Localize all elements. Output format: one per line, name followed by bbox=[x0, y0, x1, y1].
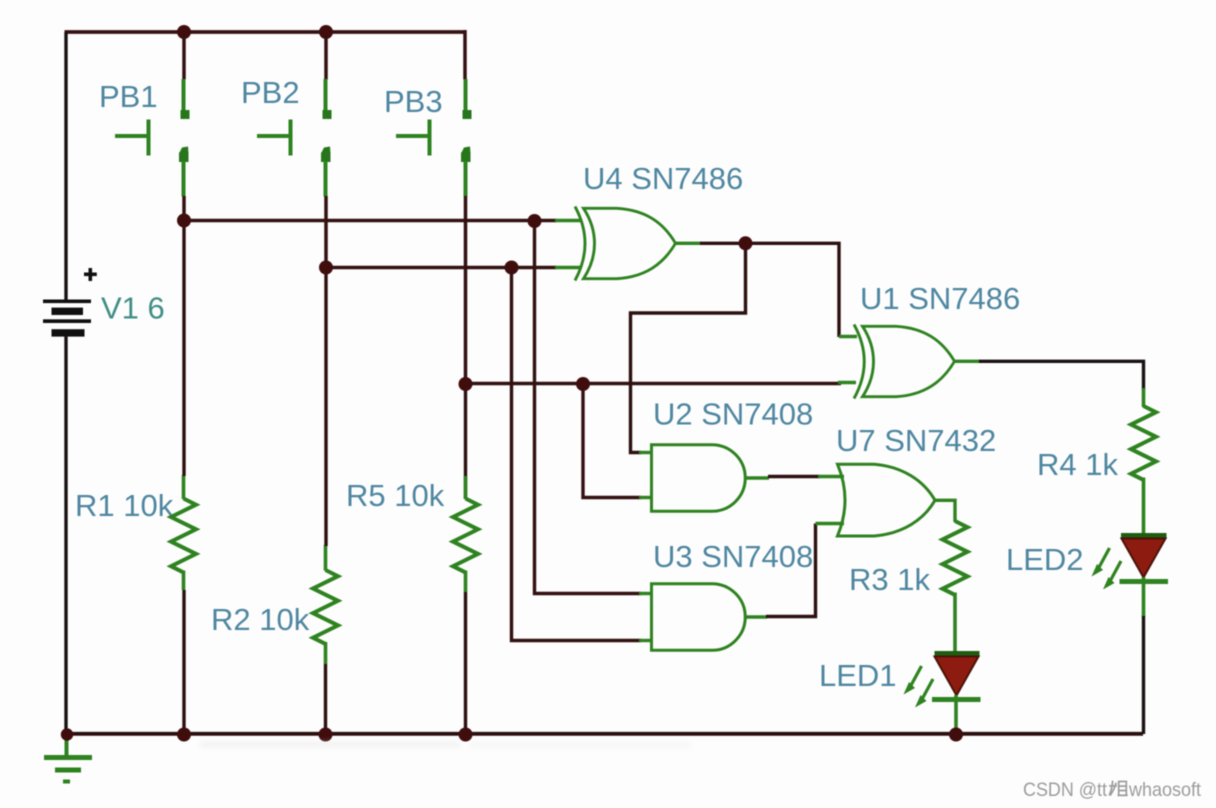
node dot B-U3 branch bbox=[505, 261, 519, 275]
node dot rail R2 bbox=[319, 728, 333, 742]
wire U1 output to R4 bbox=[955, 360, 980, 363]
wire bottom rail bbox=[65, 732, 1144, 736]
switch PB3 bbox=[396, 30, 472, 385]
node dot top rail PB2 bbox=[319, 25, 333, 39]
LED2 bbox=[1092, 536, 1169, 618]
svg-text:R2 10k: R2 10k bbox=[211, 602, 310, 637]
node dot C-U2 branch bbox=[576, 377, 590, 391]
resistor R5 bbox=[453, 384, 478, 592]
svg-text:R3 1k: R3 1k bbox=[849, 562, 930, 597]
op AND gate U3 bbox=[652, 584, 746, 651]
node dot rail LED1 bbox=[949, 728, 963, 742]
wire left rail (battery +) bbox=[64, 32, 67, 300]
wire U4 output branch to U2 input 1 bbox=[631, 243, 746, 452]
ghost smudge under rail bbox=[200, 741, 690, 748]
wire U3 output to U7 input 2 bbox=[746, 615, 768, 618]
wire PB2 column through R2 to rail bbox=[324, 268, 327, 547]
node dot A-R1 bbox=[177, 214, 191, 228]
op XOR gate U1 bbox=[854, 325, 955, 399]
svg-text:LED2: LED2 bbox=[1006, 542, 1084, 577]
resistor R1 bbox=[171, 475, 196, 590]
node dot rail R5 bbox=[459, 728, 473, 742]
svg-text:U2 SN7408: U2 SN7408 bbox=[653, 397, 813, 432]
wire node C (PB3 to U1 input 2) bbox=[466, 382, 842, 385]
svg-text:R1 10k: R1 10k bbox=[75, 488, 174, 523]
op OR gate U7 bbox=[838, 464, 936, 536]
node dot top rail PB1 bbox=[177, 25, 191, 39]
svg-text:R5 10k: R5 10k bbox=[346, 478, 445, 513]
svg-text:CSDN @tt: CSDN @tt bbox=[1023, 779, 1108, 801]
wire node B (PB2 to U4 input 2) bbox=[326, 266, 557, 269]
svg-text:U3 SN7408: U3 SN7408 bbox=[653, 539, 813, 574]
svg-text:PB3: PB3 bbox=[384, 84, 443, 119]
svg-text:LED1: LED1 bbox=[819, 658, 897, 693]
resistor R4 bbox=[1131, 388, 1156, 535]
wire node A (PB1 to U4 input 1) bbox=[184, 219, 557, 222]
svg-text:U7 SN7432: U7 SN7432 bbox=[836, 423, 996, 458]
wire U4 output to node bbox=[676, 242, 701, 245]
svg-text:R4 1k: R4 1k bbox=[1037, 447, 1118, 482]
svg-text:U1 SN7486: U1 SN7486 bbox=[860, 281, 1020, 316]
LED1 bbox=[904, 654, 981, 735]
node dot A-U3 branch bbox=[528, 214, 542, 228]
node dot rail R1 bbox=[177, 728, 191, 742]
svg-text:PB2: PB2 bbox=[241, 75, 300, 110]
resistor R3 bbox=[943, 521, 968, 653]
resistor R2 bbox=[313, 545, 338, 664]
node dot ground corner bbox=[61, 728, 73, 740]
wire branch A to U3 input 1 bbox=[535, 221, 642, 594]
battery V1 bbox=[43, 268, 97, 337]
switch PB1 bbox=[115, 33, 190, 221]
node dot U4 output bbox=[739, 236, 753, 250]
svg-text:PB1: PB1 bbox=[99, 79, 158, 114]
node dot B-R2 bbox=[319, 261, 333, 275]
op XOR gate U4 bbox=[575, 207, 676, 281]
svg-text:whaosoft: whaosoft bbox=[1128, 779, 1201, 801]
wire LED2 to bottom rail bbox=[1142, 616, 1145, 734]
wire U7 output to R3 bbox=[934, 500, 955, 522]
wire branch B to U3 input 2 bbox=[512, 268, 642, 641]
wire PB1 column through R1 to rail bbox=[182, 221, 185, 477]
wire branch C to U2 input 2 bbox=[583, 384, 641, 498]
wire battery minus to bottom rail bbox=[64, 337, 67, 735]
op AND gate U2 bbox=[652, 445, 746, 512]
svg-text:V1 6: V1 6 bbox=[101, 291, 165, 326]
node dot C-R5 bbox=[459, 377, 473, 391]
svg-text:U4 SN7486: U4 SN7486 bbox=[583, 161, 743, 196]
ground bbox=[44, 735, 92, 782]
switch PB2 bbox=[257, 33, 332, 268]
watermark bbox=[1023, 779, 1202, 801]
wire U2 output to U7 input 1 bbox=[746, 476, 770, 479]
wire top rail bbox=[65, 30, 466, 34]
wire R5 to rail bbox=[464, 592, 467, 734]
